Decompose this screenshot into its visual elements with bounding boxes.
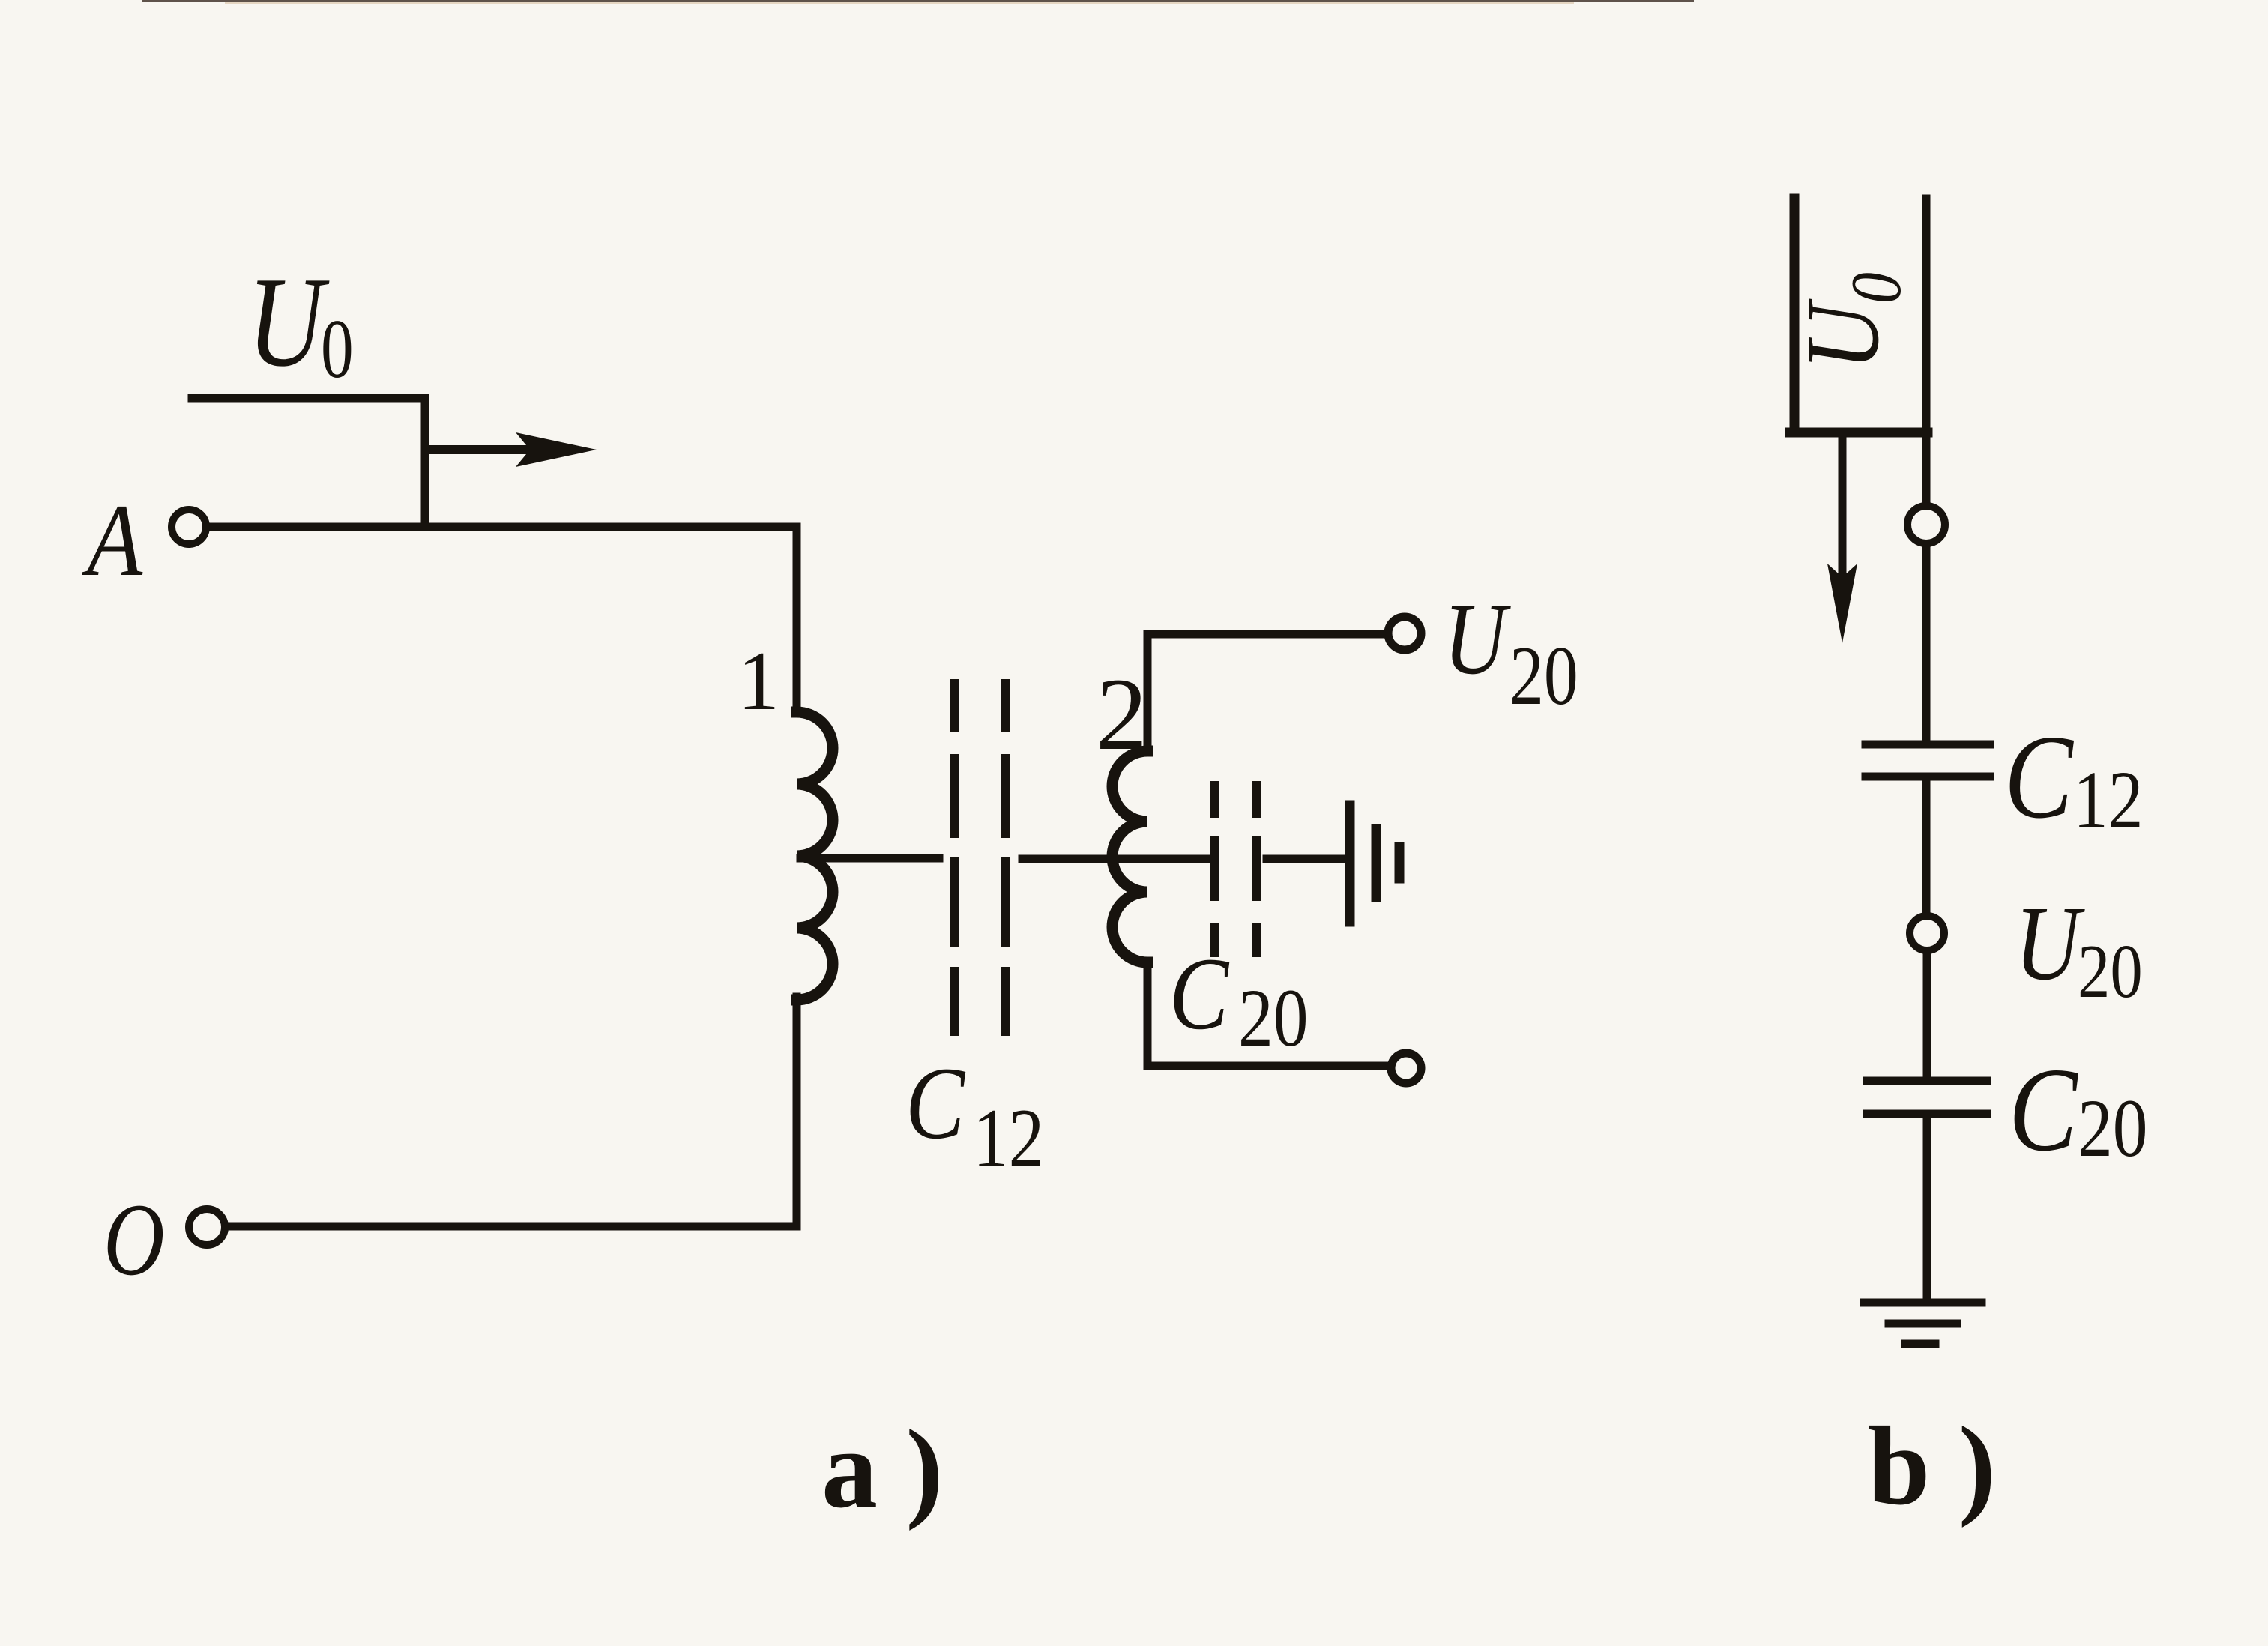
svg-text:C: C — [905, 1046, 966, 1160]
svg-text:O: O — [103, 1184, 165, 1297]
wire C12 to winding 2 / C20 — [1022, 855, 1208, 863]
wire node to C12 (part b) — [1922, 545, 1931, 742]
svg-text:C: C — [1169, 936, 1230, 1051]
capacitor C12 left plate (dashed) — [950, 684, 959, 1031]
arrow down (part b) — [1827, 435, 1857, 643]
capacitor C20 left plate (dashed) — [1210, 786, 1219, 953]
svg-text:C: C — [2009, 1043, 2078, 1176]
svg-text:20: 20 — [2078, 1083, 2147, 1175]
scan edge artifact top — [142, 0, 1694, 2]
wire C20 to ground (part b) — [1923, 1117, 1931, 1302]
label U0 (part a source voltage) — [247, 251, 354, 396]
svg-text:U0: U0 — [1784, 272, 1916, 370]
svg-text:20: 20 — [1510, 630, 1578, 723]
terminal lower right — [1391, 1053, 1421, 1083]
wire U20 to C20 (part b) — [1923, 952, 1931, 1079]
svg-text:0: 0 — [321, 303, 354, 396]
winding 1 (primary coil, 4 arcs) — [797, 712, 833, 1000]
wire C20 to ground — [1267, 855, 1349, 863]
wire winding1 bottom to O — [226, 997, 797, 1226]
svg-text:U: U — [1444, 583, 1511, 696]
source U0 bottom bar (part b) — [1790, 428, 1928, 438]
capacitor C12 right plate (dashed) — [1001, 684, 1010, 1031]
svg-text:a ): a ) — [821, 1407, 943, 1531]
terminal A — [172, 510, 206, 544]
terminal U20 — [1388, 617, 1421, 650]
arrow current direction (part a) — [427, 432, 597, 467]
winding 2 (secondary coil, 3 arcs, bulging left) — [1112, 751, 1147, 962]
wire winding2 bottom to lower terminal — [1147, 1062, 1387, 1070]
label U20 — [1444, 583, 1578, 723]
label C12 (part b) — [2004, 711, 2143, 845]
svg-text:20: 20 — [2078, 930, 2143, 1014]
svg-text:12: 12 — [2073, 755, 2143, 846]
label U20 (part b) — [2015, 884, 2143, 1014]
label C20 — [1169, 936, 1308, 1064]
svg-text:C: C — [2004, 711, 2074, 843]
capacitor C20 right plate (dashed) — [1252, 786, 1261, 953]
label U0 (part b, rotated) — [1784, 272, 1916, 370]
svg-text:U: U — [2015, 884, 2085, 1002]
svg-text:12: 12 — [973, 1092, 1044, 1185]
ground (part a, rotated) — [1350, 805, 1399, 922]
svg-text:1: 1 — [738, 635, 779, 728]
svg-text:A: A — [82, 483, 143, 598]
label C20 (part b) — [2009, 1043, 2147, 1176]
label C12 — [905, 1046, 1044, 1185]
wire winding2 top to U20 terminal — [1147, 634, 1386, 1066]
svg-text:b ): b ) — [1868, 1404, 1996, 1528]
svg-text:U: U — [247, 251, 330, 394]
wire U0 underline — [192, 394, 423, 403]
wire main vertical top (part b) — [1922, 199, 1931, 504]
terminal node top (part b) — [1907, 506, 1945, 543]
svg-text:20: 20 — [1238, 973, 1308, 1064]
wire A to winding 1 top — [210, 527, 797, 714]
capacitor C20 plates (part b) — [1867, 1081, 1987, 1114]
wire winding1 centre tap to C12 — [800, 854, 939, 863]
wire C12 to U20 node (part b) — [1922, 780, 1931, 914]
capacitor C12 plates (part b) — [1866, 744, 1990, 777]
source U0 left lead (part b) — [1790, 199, 1800, 431]
ground (part b) — [1864, 1303, 1982, 1344]
wire U0 vertical drop — [421, 398, 429, 525]
terminal O — [189, 1209, 225, 1245]
terminal U20 node (part b) — [1910, 916, 1944, 950]
